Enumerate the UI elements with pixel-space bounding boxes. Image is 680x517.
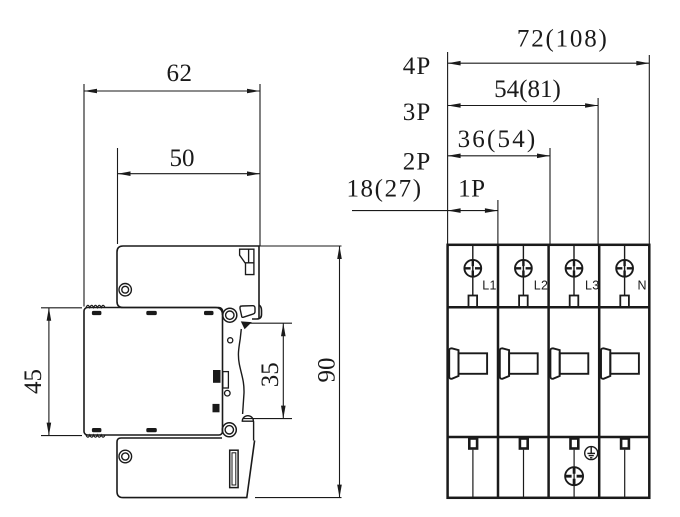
clip dark rect 2 — [213, 404, 220, 412]
pole 1 bottom clamp — [469, 439, 477, 498]
dim 45 extension line top — [41, 307, 82, 309]
svg-text:35: 35 — [257, 362, 284, 387]
svg-text:2P: 2P — [403, 149, 432, 176]
pole 3 bottom clamp — [571, 439, 579, 498]
dim 62 arrows — [84, 89, 97, 94]
bottom slider rect — [230, 450, 238, 487]
clip outline rect — [223, 372, 229, 388]
ext line x=550 (2P) — [549, 148, 551, 245]
pole 1 top terminal — [464, 245, 481, 307]
dim 54(81) line — [448, 105, 598, 107]
ext line x=598.1 (3P) — [597, 98, 599, 245]
dim 18(27)/1P line — [352, 210, 498, 212]
bottom block outline — [117, 438, 255, 498]
small circle lower — [225, 390, 231, 396]
module body — [84, 308, 223, 436]
screw circle top block — [119, 284, 131, 296]
module ticks top edge — [92, 311, 214, 315]
svg-text:1P: 1P — [458, 175, 485, 202]
pole 2 top terminal — [515, 245, 532, 307]
pole 4 bottom clamp — [621, 439, 629, 498]
svg-text:45: 45 — [20, 369, 47, 394]
earth symbol pole 3 — [585, 447, 598, 460]
module double circle bottom-right — [222, 423, 236, 437]
svg-text:N: N — [638, 279, 647, 293]
svg-text:4P: 4P — [403, 53, 432, 80]
pole 2 bottom clamp — [520, 439, 528, 498]
module double circle top-right — [223, 308, 237, 322]
serrations bottom-left — [86, 435, 105, 437]
svg-text:3P: 3P — [403, 99, 432, 126]
dim 50 line — [118, 173, 261, 175]
svg-text:72(108): 72(108) — [517, 26, 609, 53]
dim 36(54) line — [448, 155, 550, 157]
pole 4 top terminal — [616, 245, 633, 307]
pole 1 knob — [449, 348, 487, 379]
svg-text:L2: L2 — [534, 279, 549, 293]
top-right catch inner lines — [246, 249, 254, 263]
top-right catch — [240, 249, 254, 274]
dim 45 extension line bottom — [41, 435, 82, 437]
svg-text:L1: L1 — [482, 279, 497, 293]
divider pole 2/3 — [547, 245, 550, 498]
dim 90 extension bottom (device bottom edge extended) — [255, 497, 342, 499]
bottom block screw circle — [119, 450, 132, 463]
serrations top-left — [86, 305, 105, 307]
module ticks bottom edge — [92, 428, 157, 432]
ext line right x=649.3 — [648, 55, 650, 245]
right edge curl above rail — [252, 305, 262, 319]
dim 90 arrows — [337, 246, 342, 259]
dim 90 line — [339, 246, 341, 498]
horizontal line bottom strip — [448, 436, 650, 439]
dim 35 arrows — [281, 323, 286, 336]
dim 62 line — [84, 90, 260, 92]
dim 45 line — [48, 308, 50, 436]
wavy rail edge — [238, 329, 244, 414]
svg-text:18(27): 18(27) — [346, 175, 422, 202]
dim 62/50 shared extension line right — [259, 84, 261, 246]
svg-text:36(54): 36(54) — [458, 126, 538, 153]
dim 35 line — [282, 323, 284, 418]
pole 2 knob — [500, 348, 538, 379]
ext line common left x=447.6 — [447, 52, 449, 245]
ext line x=497.9 (1P) — [497, 200, 499, 245]
bottom rail hook semicircle — [242, 416, 253, 441]
black triangle rail catch — [241, 321, 252, 329]
svg-text:62: 62 — [167, 60, 193, 87]
pole 3 knob — [550, 348, 588, 379]
clip dark rect 1 — [213, 370, 221, 383]
top block outline — [117, 246, 259, 319]
dim 62 extension line left — [83, 84, 85, 307]
horizontal line top strip — [448, 306, 650, 309]
divider pole 1/2 — [497, 245, 500, 498]
outer body rect — [448, 245, 650, 498]
svg-text:L3: L3 — [585, 279, 600, 293]
pole 3 top terminal — [566, 245, 583, 307]
small circle upper — [228, 338, 233, 343]
dim 45 arrows — [47, 308, 52, 321]
svg-text:50: 50 — [170, 145, 195, 172]
dim 90 extension top (device top edge extended) — [259, 245, 342, 247]
dim 50 arrows — [118, 171, 131, 176]
dim 50 extension line left — [117, 148, 119, 244]
pole 4 knob — [601, 348, 639, 379]
divider pole 3/4 — [598, 245, 601, 498]
svg-text:54(81): 54(81) — [494, 76, 561, 103]
dim 72(108) line — [448, 62, 650, 64]
dim 35 extension line top — [243, 322, 292, 324]
dim 35 extension line bottom — [243, 418, 292, 420]
hook quad at rail top — [240, 306, 255, 318]
bottom screw pole 3 — [565, 467, 583, 485]
svg-text:90: 90 — [314, 358, 341, 383]
